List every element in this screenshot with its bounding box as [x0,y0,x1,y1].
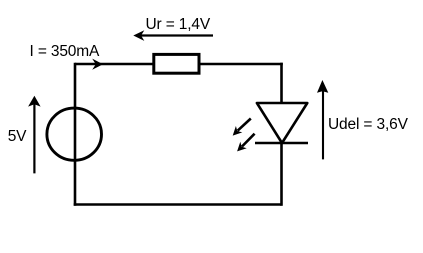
svg-text:Ur = 1,4V: Ur = 1,4V [146,16,211,33]
wire bottom [74,203,282,206]
voltage arrow Ur [133,30,213,41]
LED emission arrow 1 [233,119,251,136]
LED emission arrow 2 [237,134,255,152]
voltage arrow Udel [317,80,328,159]
LED D1 triangle [257,103,307,143]
resistor R1 [154,54,199,73]
wire top-right segment [200,63,283,66]
voltage source V1 [47,108,102,160]
svg-text:I = 350mA: I = 350mA [30,43,101,60]
current arrow I [92,59,103,70]
wire left vertical [74,63,77,206]
wire right vertical bottom [280,143,283,206]
svg-text:Udel = 3,6V: Udel = 3,6V [328,116,409,133]
wire top-left segment [75,63,153,66]
voltage arrow 5V [28,96,40,174]
LED D1 cathode bar [255,142,308,145]
wire right vertical top [280,63,283,104]
svg-text:5V: 5V [8,128,27,145]
